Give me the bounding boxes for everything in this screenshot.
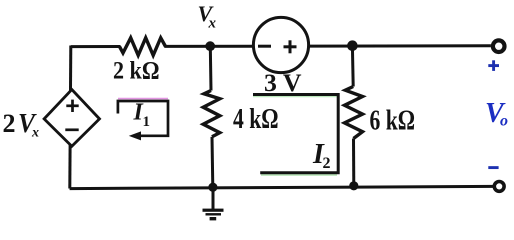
svg-text:1: 1	[143, 114, 151, 130]
svg-text:3 V: 3 V	[264, 70, 302, 97]
svg-text:x: x	[208, 16, 217, 32]
svg-text:2: 2	[3, 109, 16, 138]
svg-text:6 kΩ: 6 kΩ	[370, 105, 416, 137]
svg-text:4 kΩ: 4 kΩ	[233, 104, 279, 135]
svg-text:o: o	[500, 113, 508, 130]
svg-text:x: x	[31, 126, 39, 141]
svg-text:2 kΩ: 2 kΩ	[113, 57, 160, 84]
svg-text:2: 2	[323, 155, 331, 172]
